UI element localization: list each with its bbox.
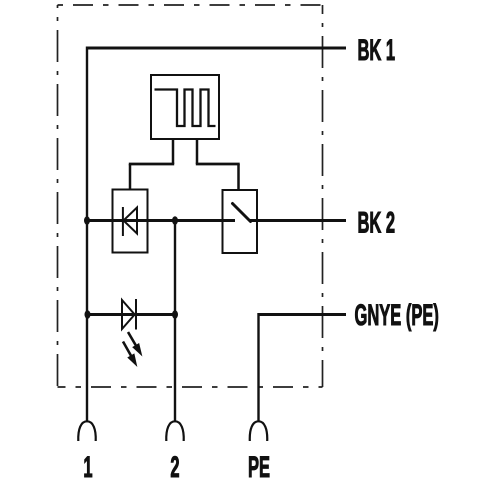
terminal contact 1 (78, 421, 96, 441)
wire BK1 horizontal (87, 47, 346, 50)
switch S1 box (223, 190, 258, 253)
wire U1 left leg (172, 139, 175, 164)
svg-text:2: 2 (170, 451, 179, 484)
wire left drop to diode box (129, 164, 132, 190)
svg-text:BK 2: BK 2 (358, 206, 396, 239)
diode V1 triangle (124, 208, 138, 234)
wire LED branch horizontal (87, 313, 175, 316)
wire BK2 horizontal right segment (250, 219, 346, 222)
svg-text:1: 1 (83, 451, 92, 484)
wire bus PE vertical (257, 313, 259, 421)
LED V2 triangle (122, 300, 135, 329)
pulse generator U1 box (151, 75, 219, 139)
wire left connector horizontal (129, 163, 174, 166)
svg-text:GNYE (PE): GNYE (PE) (355, 299, 439, 332)
wire GNYE horizontal (259, 313, 347, 316)
enclosure dash-dot border top (58, 4, 323, 6)
wire U1 right leg (196, 139, 199, 164)
enclosure dash-dot border bottom (58, 386, 323, 388)
LED V2 emission arrow 1 (128, 332, 142, 355)
switch S1 lever (233, 204, 251, 222)
wire bus pin2 vertical (174, 221, 176, 422)
svg-text:PE: PE (248, 451, 270, 484)
wire bus pin1 vertical (86, 47, 88, 422)
junction node bus2/BK2 (172, 216, 178, 225)
junction node bus2/LED wire (172, 310, 178, 319)
junction node bus1/BK2 (84, 216, 90, 225)
wire right drop to switch box (237, 164, 240, 191)
diode V1 box (113, 190, 148, 253)
LED V2 emission arrow 2 (123, 342, 137, 366)
pulse generator U1 waveform (155, 90, 216, 127)
terminal contact PE (250, 421, 268, 441)
enclosure dash-dot border right (322, 5, 324, 387)
LED V2 cathode bar (135, 299, 137, 330)
terminal contact 2 (166, 421, 184, 441)
svg-text:BK 1: BK 1 (358, 34, 396, 67)
wire BK2 horizontal left segment (87, 219, 235, 222)
junction node bus1/LED wire (85, 310, 91, 319)
wire right connector horizontal (196, 163, 240, 166)
diode V1 cathode bar (122, 207, 124, 236)
enclosure dash-dot border left (57, 5, 59, 387)
